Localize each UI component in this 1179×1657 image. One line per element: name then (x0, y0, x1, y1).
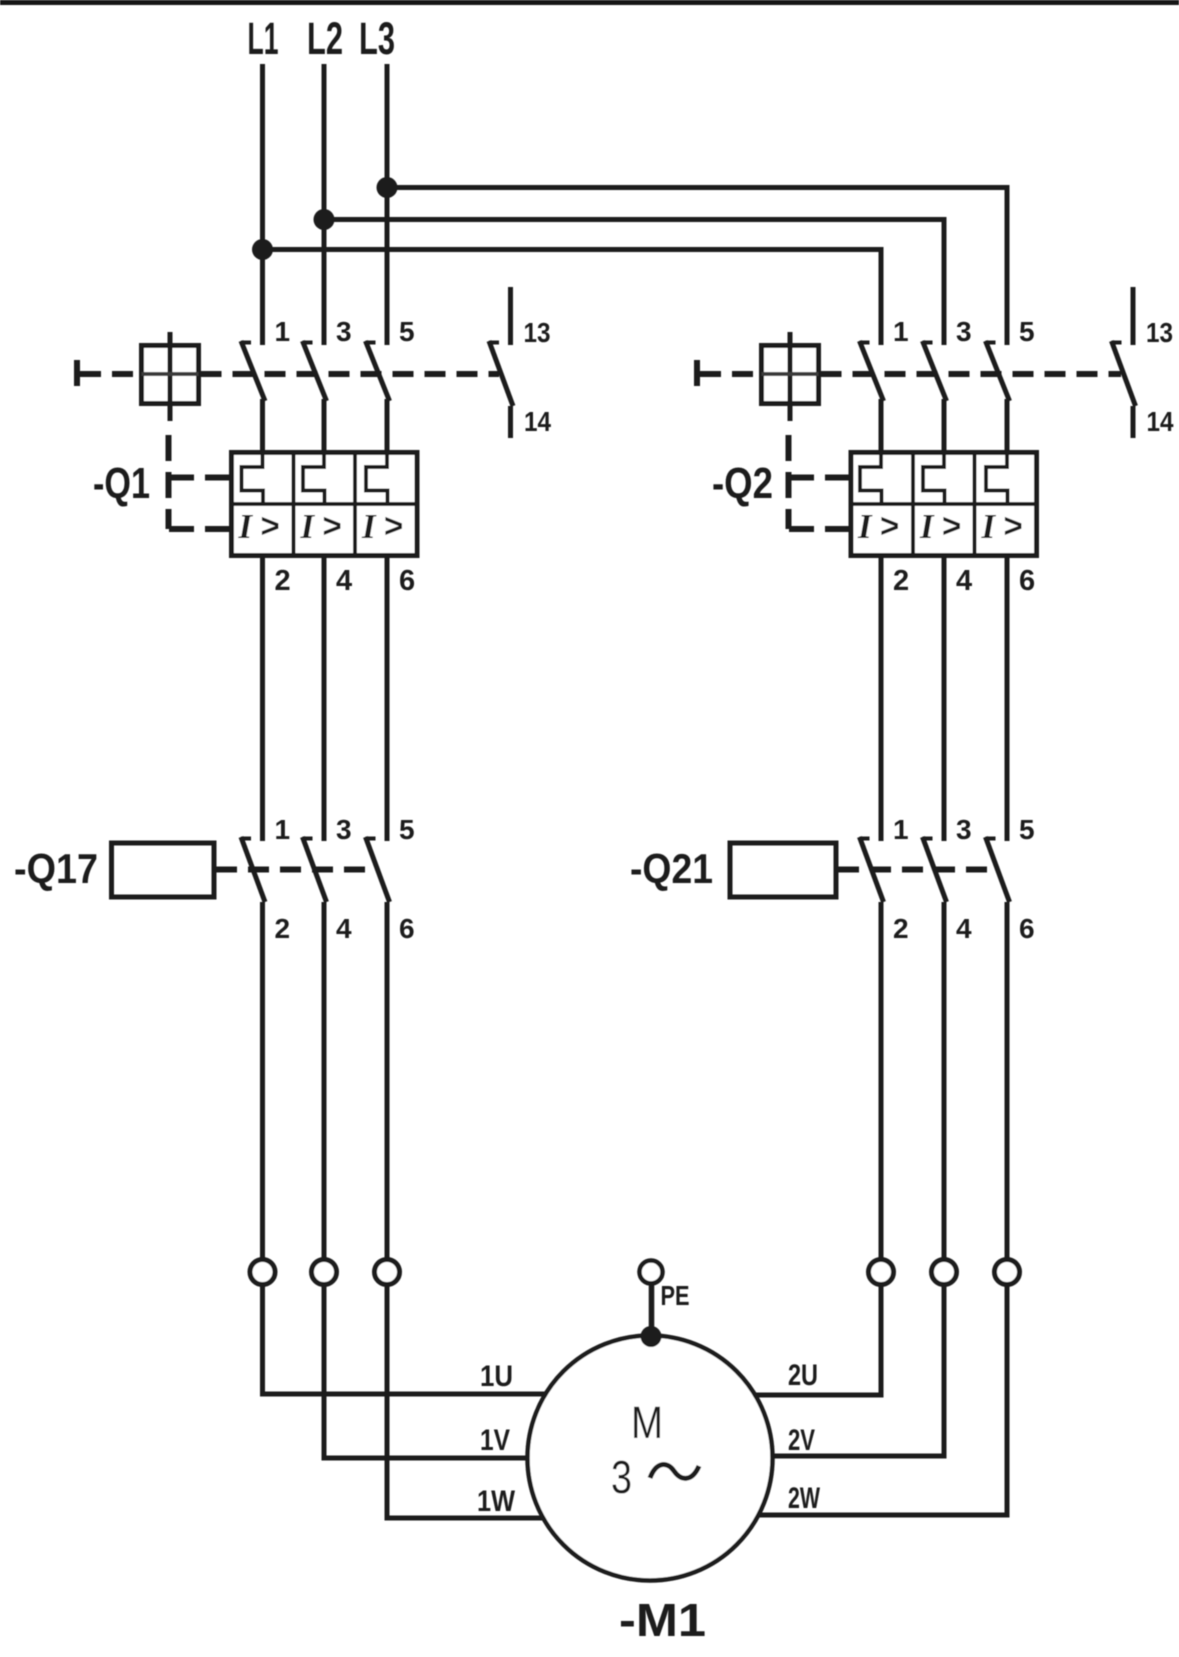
-Q21 blade tick pin 3 (923, 837, 933, 841)
-Q2 thermal latch hook pole 1 (860, 453, 882, 504)
svg-text:>: > (880, 507, 899, 544)
svg-text:4: 4 (956, 565, 972, 597)
svg-text:5: 5 (399, 316, 415, 347)
wire -Q2 pin 2 down to -Q21 (879, 554, 884, 841)
-Q1 thermal latch hook pole 3 (303, 453, 325, 504)
-Q17 main contact blade pin 3 (303, 837, 327, 902)
svg-text:2V: 2V (788, 1424, 815, 1457)
svg-text:2U: 2U (788, 1359, 818, 1392)
svg-text:I: I (919, 507, 935, 546)
-Q1 aux blade tick (489, 341, 499, 345)
-Q1 aux contact 14 wire (508, 406, 513, 438)
wire L1 vertical feed (260, 64, 265, 345)
motor AC tilde (650, 1465, 699, 1479)
svg-text:I: I (981, 507, 997, 546)
-Q17 blade tick pin 3 (303, 837, 313, 841)
-Q21 coil (730, 843, 836, 897)
svg-text:5: 5 (399, 814, 415, 845)
svg-text:-Q17: -Q17 (14, 845, 98, 892)
wire L3 vertical feed (385, 64, 390, 345)
-Q2 operator vertical axis (788, 332, 793, 421)
wire -Q1 pin 2 down to -Q17 (260, 554, 265, 841)
svg-text:L3: L3 (359, 13, 395, 64)
svg-text:14: 14 (524, 406, 551, 437)
-Q2 pole contact blade (pin 1) (860, 341, 884, 401)
wire -Q1 pin 4 down to -Q17 (322, 554, 327, 841)
svg-text:I: I (361, 507, 377, 546)
-Q2 blade top tick pin 5 (986, 341, 996, 345)
-Q17 blade tick pin 1 (241, 837, 251, 841)
svg-text:13: 13 (524, 317, 551, 348)
-Q2 trip linkage dashed (right of operator) (821, 371, 1122, 377)
wire -Q21 pin 6 down to terminal (1005, 902, 1010, 1260)
-Q1 box cell dividers (294, 453, 356, 556)
svg-text:2: 2 (275, 565, 291, 597)
svg-text:2W: 2W (788, 1482, 820, 1515)
wire -Q1 pin 6 down to -Q17 (385, 554, 390, 841)
svg-text:>: > (1004, 507, 1023, 544)
-Q1 linkage dashed branch upper (169, 475, 232, 481)
-Q2 release box outline (851, 453, 1037, 556)
svg-text:2: 2 (893, 565, 909, 597)
terminal circle left 3 (375, 1260, 400, 1285)
-Q21 main contact blade pin 1 (860, 837, 884, 902)
-Q1 manual operator square (142, 346, 199, 404)
svg-text:-M1: -M1 (619, 1594, 706, 1646)
node junction on L1 (252, 239, 273, 260)
svg-text:M: M (631, 1397, 663, 1448)
svg-text:2: 2 (275, 913, 291, 944)
-Q2 manual operator square (762, 346, 819, 404)
-Q1 wire blade to box pin 5 (385, 399, 390, 454)
svg-text:-Q21: -Q21 (630, 845, 713, 892)
-Q2 pole contact blade (pin 5) (986, 341, 1010, 401)
-Q17 main contact blade pin 1 (241, 837, 265, 902)
-Q2 aux blade tick (1112, 341, 1122, 345)
terminal circle right 2 (932, 1260, 957, 1285)
-Q1 operator horizontal axis (142, 372, 199, 376)
svg-text:I: I (300, 507, 316, 546)
svg-text:14: 14 (1147, 406, 1174, 437)
svg-text:1: 1 (275, 316, 291, 347)
wire -Q2 pin 4 down to -Q21 (942, 554, 947, 841)
-Q17 actuation dashed link (216, 867, 376, 873)
svg-text:3: 3 (336, 316, 352, 347)
node junction on L2 (314, 209, 335, 230)
-Q2 aux contact 13 wire (1131, 287, 1136, 345)
svg-text:I: I (238, 507, 254, 546)
-Q1 wire blade to box pin 1 (260, 399, 265, 454)
-Q17 main contact blade pin 5 (366, 837, 390, 902)
-Q2 aux contact blade (1112, 341, 1136, 406)
-Q2 linkage dashed vertical to release (786, 435, 792, 529)
svg-text:1U: 1U (480, 1360, 513, 1393)
terminal circle right 3 (995, 1260, 1020, 1285)
-Q2 box row divider (851, 502, 1037, 506)
-Q1 blade top tick pin 1 (241, 341, 251, 345)
-Q1 blade top tick pin 5 (366, 341, 376, 345)
svg-text:>: > (261, 507, 280, 544)
svg-text:L1: L1 (248, 13, 279, 64)
svg-text:4: 4 (336, 565, 352, 597)
svg-text:-Q2: -Q2 (712, 459, 773, 508)
-Q1 linkage dashed vertical to release (166, 435, 172, 529)
-Q1 trip linkage end tick (74, 360, 80, 386)
-Q2 trip linkage dashed (left of operator) (700, 371, 762, 377)
wire L2 vertical feed (322, 64, 327, 345)
svg-text:1: 1 (893, 316, 909, 347)
-Q1 pole contact blade (pin 3) (303, 341, 327, 401)
wire -Q21 pin 4 down to terminal (942, 902, 947, 1260)
-Q1 blade top tick pin 3 (303, 341, 313, 345)
wire terminal to motor winding 1W (387, 1284, 620, 1518)
-Q17 coil (112, 843, 215, 897)
-Q1 box row divider (232, 502, 418, 506)
-Q2 linkage dashed branch upper (789, 475, 851, 481)
svg-text:>: > (384, 507, 403, 544)
svg-text:1: 1 (893, 814, 909, 845)
-Q2 linkage dashed branch lower (789, 526, 851, 532)
wire branch L1 to -Q2 pole 1 (263, 250, 882, 346)
-Q21 blade tick pin 1 (860, 837, 870, 841)
-Q21 main contact blade pin 3 (923, 837, 947, 902)
svg-text:3: 3 (956, 814, 972, 845)
wire terminal to motor winding 2W (680, 1284, 1007, 1515)
wire -Q2 pin 6 down to -Q21 (1005, 554, 1010, 841)
-Q2 thermal latch hook pole 5 (986, 453, 1008, 504)
-Q1 trip linkage dashed (right of operator) (201, 371, 500, 377)
-Q2 aux contact 14 wire (1131, 406, 1136, 438)
wire branch L2 to -Q2 pole 3 (324, 220, 944, 346)
-Q2 trip linkage end tick (694, 360, 700, 386)
svg-text:L2: L2 (307, 13, 343, 64)
wire terminal to motor winding 1V (324, 1284, 620, 1458)
terminal circle left 2 (312, 1260, 337, 1285)
wire -Q21 pin 2 down to terminal (879, 902, 884, 1260)
svg-text:6: 6 (1019, 565, 1035, 597)
wire -Q17 pin 6 down to terminal (385, 902, 390, 1260)
svg-text:5: 5 (1019, 316, 1035, 347)
wire terminal to motor winding 2U (680, 1284, 881, 1395)
svg-text:3: 3 (956, 316, 972, 347)
svg-text:3: 3 (336, 814, 352, 845)
-Q1 trip linkage dashed (left of operator) (80, 371, 142, 377)
svg-text:-Q1: -Q1 (93, 459, 150, 508)
motor -M1 circle (528, 1336, 773, 1581)
svg-text:4: 4 (336, 913, 352, 944)
wire terminal to motor winding 2V (680, 1284, 944, 1456)
-Q1 wire blade to box pin 3 (322, 399, 327, 454)
-Q1 thermal latch hook pole 1 (242, 453, 264, 504)
node junction on L3 (377, 177, 398, 198)
terminal circle left 1 (250, 1260, 275, 1285)
svg-text:1V: 1V (480, 1424, 510, 1457)
-Q1 release box outline (232, 453, 418, 556)
-Q1 linkage dashed branch lower (169, 526, 232, 532)
wire branch L3 to -Q2 pole 5 (387, 188, 1007, 346)
-Q2 blade top tick pin 1 (860, 341, 870, 345)
top border bar (0, 0, 1179, 5)
svg-text:6: 6 (1019, 913, 1035, 944)
-Q1 aux contact 13 wire (508, 287, 513, 345)
-Q21 blade tick pin 5 (986, 837, 996, 841)
svg-text:>: > (323, 507, 342, 544)
svg-text:1: 1 (275, 814, 291, 845)
wire PE to motor (649, 1284, 655, 1337)
-Q2 operator horizontal axis (762, 372, 819, 376)
svg-text:1W: 1W (477, 1485, 516, 1518)
svg-text:5: 5 (1019, 814, 1035, 845)
-Q1 thermal latch hook pole 5 (366, 453, 388, 504)
-Q1 operator vertical axis (168, 332, 173, 421)
-Q21 actuation dashed link (838, 867, 996, 873)
-Q1 aux contact blade (489, 341, 513, 406)
wire -Q17 pin 2 down to terminal (260, 902, 265, 1260)
wire terminal to motor winding 1U (263, 1284, 621, 1394)
PE terminal circle (640, 1261, 663, 1284)
svg-text:6: 6 (399, 565, 415, 597)
node PE connection dot (641, 1326, 662, 1347)
-Q1 pole contact blade (pin 5) (366, 341, 390, 401)
-Q17 blade tick pin 5 (366, 837, 376, 841)
wire -Q17 pin 4 down to terminal (322, 902, 327, 1260)
svg-text:6: 6 (399, 913, 415, 944)
svg-text:4: 4 (956, 913, 972, 944)
-Q21 main contact blade pin 5 (986, 837, 1010, 902)
terminal circle right 1 (869, 1260, 894, 1285)
-Q1 pole contact blade (pin 1) (241, 341, 265, 401)
-Q2 blade top tick pin 3 (923, 341, 933, 345)
-Q2 thermal latch hook pole 3 (923, 453, 945, 504)
svg-text:I: I (857, 507, 873, 546)
-Q2 wire blade to box pin 5 (1005, 399, 1010, 454)
svg-text:3: 3 (611, 1451, 632, 1503)
svg-text:PE: PE (661, 1280, 690, 1311)
-Q2 wire blade to box pin 1 (879, 399, 884, 454)
-Q2 box cell dividers (913, 453, 975, 556)
svg-text:>: > (942, 507, 961, 544)
-Q2 wire blade to box pin 3 (942, 399, 947, 454)
svg-text:2: 2 (893, 913, 909, 944)
svg-text:13: 13 (1146, 317, 1173, 348)
-Q2 pole contact blade (pin 3) (923, 341, 947, 401)
